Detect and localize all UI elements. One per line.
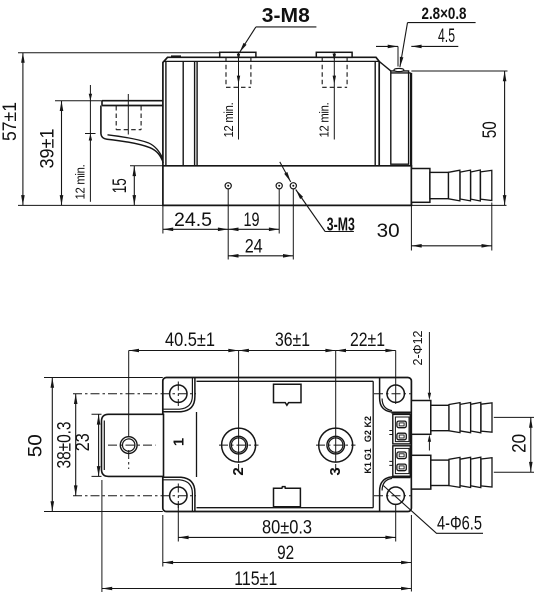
dimension 50 (left) xyxy=(44,378,163,512)
svg-text:12 min.: 12 min. xyxy=(74,165,88,200)
label 4-Φ6.5 xyxy=(383,486,483,534)
dimension 39±1 xyxy=(61,101,63,206)
corner ear top-right xyxy=(380,378,412,412)
hose fitting barbs xyxy=(449,170,460,201)
svg-text:57±1: 57±1 xyxy=(0,102,21,141)
connector latches xyxy=(389,431,393,466)
hose fitting 1 barbs xyxy=(449,403,460,433)
dimension 12 min. (gate tab) xyxy=(89,85,91,202)
dimension 80±0.3 xyxy=(178,505,395,542)
hose fitting 2 barbs xyxy=(449,457,460,487)
label plate top xyxy=(274,384,302,405)
svg-text:12 min.: 12 min. xyxy=(222,103,236,138)
terminal boss M8 no.3 xyxy=(316,52,352,57)
dimension 23 xyxy=(92,414,102,476)
svg-text:115±1: 115±1 xyxy=(234,569,277,590)
hose fitting (side view) collar xyxy=(411,169,430,203)
svg-text:23: 23 xyxy=(73,433,94,451)
svg-text:20: 20 xyxy=(510,434,531,453)
extension line terminal 3 xyxy=(335,351,337,463)
mounting hole top-right xyxy=(387,385,404,402)
hose fitting shank xyxy=(430,172,449,198)
fast-on tab tip 2.8x0.8 xyxy=(394,68,404,71)
label plate bottom xyxy=(274,487,301,507)
hose fitting 2 shank xyxy=(431,460,449,485)
dimension 92 xyxy=(163,515,412,592)
terminal 3 xyxy=(319,428,353,462)
svg-text:3-M3: 3-M3 xyxy=(327,214,355,235)
mounting hole bottom-right xyxy=(387,487,404,504)
svg-text:G2: G2 xyxy=(363,430,373,442)
svg-text:K2: K2 xyxy=(363,416,373,428)
pin K1 xyxy=(397,464,406,471)
dimension 36±1 xyxy=(239,350,336,352)
terminal boss M8 no.2 xyxy=(220,52,256,57)
center lines corner holes xyxy=(73,382,411,509)
corner ear bottom-right xyxy=(380,477,412,511)
dimension 19 xyxy=(278,189,280,233)
gate tab body left edge xyxy=(100,106,102,134)
svg-text:1: 1 xyxy=(171,438,188,446)
connector housing 1 xyxy=(392,412,411,414)
svg-text:24: 24 xyxy=(245,237,263,258)
dimension 57±1 xyxy=(22,53,24,206)
dimension 30 xyxy=(411,203,491,251)
corner ear top-left xyxy=(163,378,195,412)
svg-text:4-Φ6.5: 4-Φ6.5 xyxy=(437,514,482,535)
M3 hole c xyxy=(290,183,296,189)
module outline (plan) xyxy=(163,378,412,512)
chamfer to connector housing xyxy=(379,61,391,71)
svg-text:92: 92 xyxy=(277,543,294,564)
terminal 2 xyxy=(222,428,256,462)
svg-text:12 min.: 12 min. xyxy=(318,103,332,138)
dimension 50 (right) xyxy=(18,71,508,205)
extension line right hole xyxy=(395,351,397,405)
dimension 115±1 xyxy=(101,480,103,592)
pin G1 xyxy=(397,452,406,459)
terminal 1 hole xyxy=(120,437,137,454)
body top second line xyxy=(164,60,380,62)
gate lead inner curve xyxy=(108,135,163,159)
extension line terminal 1 xyxy=(128,351,130,438)
baseplate xyxy=(163,166,412,206)
M3 hole b xyxy=(276,183,282,189)
svg-text:50: 50 xyxy=(480,121,501,138)
connector housing (side) xyxy=(391,71,411,166)
dimension 38±0.3 xyxy=(75,394,77,496)
pin K2 xyxy=(397,421,406,428)
hose fitting 1 collar xyxy=(411,401,430,435)
M8 thread hole no.2 (dashed) xyxy=(226,57,251,87)
svg-text:36±1: 36±1 xyxy=(275,330,310,351)
dimension 24 xyxy=(292,189,294,259)
center line M8 no.2 xyxy=(238,52,240,139)
terminal 1 tab xyxy=(102,414,164,476)
corner ear bottom-left xyxy=(163,477,195,511)
module body outline xyxy=(163,57,379,166)
dimension 15 xyxy=(130,165,163,167)
boss-top level line / 57 extension xyxy=(18,52,221,54)
svg-text:G1: G1 xyxy=(363,448,373,460)
small top lip xyxy=(171,55,181,57)
svg-text:2.8×0.8: 2.8×0.8 xyxy=(422,4,467,23)
svg-text:30: 30 xyxy=(377,221,400,242)
hose fitting 2 collar xyxy=(411,455,430,489)
hose fitting 1 shank xyxy=(431,405,449,430)
M8 thread hole no.3 (dashed) xyxy=(322,57,347,87)
connector housing 2 xyxy=(393,446,411,476)
svg-text:2-Φ12: 2-Φ12 xyxy=(411,330,425,365)
gate terminal tab top lines xyxy=(55,100,163,102)
top face inner outline xyxy=(197,381,374,507)
center lines terminals xyxy=(108,444,356,446)
pin G2 xyxy=(397,433,406,440)
dimension 22±1 xyxy=(336,350,396,352)
svg-text:3-M8: 3-M8 xyxy=(262,5,310,27)
gate lead outer curve xyxy=(101,134,163,163)
dimension 40.5±1 xyxy=(129,350,239,352)
M3 hole a xyxy=(225,183,231,189)
svg-text:4.5: 4.5 xyxy=(438,26,455,47)
module right edge xyxy=(410,73,412,206)
depth arrows M8 no.2 xyxy=(237,54,240,85)
svg-text:15: 15 xyxy=(110,178,131,193)
dimension 20 xyxy=(494,417,534,472)
mounting hole bottom-left xyxy=(170,487,187,504)
center line M8 no.3 xyxy=(333,52,335,139)
svg-text:50: 50 xyxy=(26,434,47,457)
extension line terminal 2 xyxy=(238,351,240,463)
gate tab hole center line xyxy=(127,94,129,135)
depth arrows M8 no.3 xyxy=(333,54,336,85)
svg-text:K1: K1 xyxy=(363,462,373,474)
gate tab hole (dashed) xyxy=(116,106,141,130)
svg-text:19: 19 xyxy=(244,210,260,231)
svg-text:40.5±1: 40.5±1 xyxy=(165,330,215,351)
body rib lines xyxy=(166,61,375,165)
dimension 4.5 xyxy=(397,46,399,66)
svg-text:22±1: 22±1 xyxy=(350,330,385,351)
svg-text:39±1: 39±1 xyxy=(38,129,59,169)
svg-text:24.5: 24.5 xyxy=(174,210,212,231)
mounting hole top-left xyxy=(170,385,187,402)
svg-text:80±0.3: 80±0.3 xyxy=(262,518,312,539)
label 3-M3 leader xyxy=(280,162,291,182)
dimension 24.5 xyxy=(163,189,228,259)
